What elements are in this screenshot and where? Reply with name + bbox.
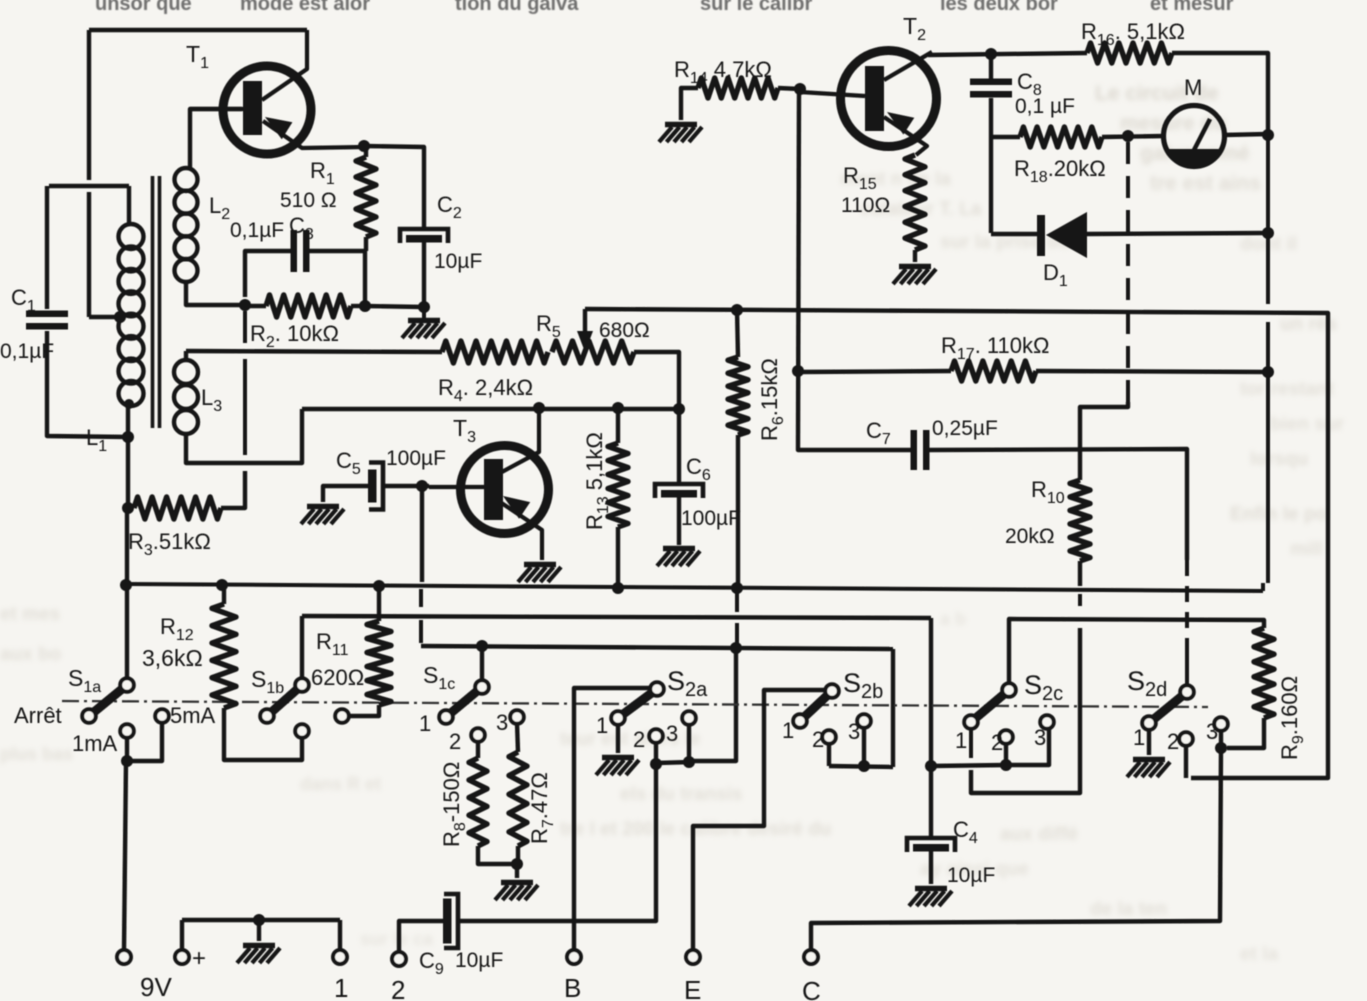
wire: R6 top tail: [737, 310, 738, 357]
svg-text:et la: et la: [1240, 944, 1278, 965]
switch S2a: [622, 692, 653, 715]
wire: bus3 right end down to S2b contacts: [891, 649, 895, 767]
svg-text:3: 3: [1206, 719, 1218, 744]
resistor R5 (rheostat body): [552, 341, 634, 363]
ground (C6): [663, 546, 695, 552]
svg-text:2: 2: [991, 730, 1003, 755]
wire: c2 down to C9: [459, 764, 656, 921]
svg-text:10µF: 10µF: [455, 949, 503, 972]
svg-text:unsor que: unsor que: [95, 0, 192, 15]
wire: C4/S2c tie: [931, 728, 1049, 766]
svg-text:9V: 9V: [140, 972, 172, 1001]
capacitor C6: [655, 484, 703, 498]
svg-text:0,1 µF: 0,1 µF: [1015, 95, 1075, 118]
wire: x89 feed down to L1 tap (lower): [87, 192, 91, 317]
wire: R11 bottom hook: [349, 705, 379, 716]
wire: R17 left tail: [798, 371, 951, 372]
wire: L3 top entry: [184, 351, 188, 362]
svg-text:0,1µF: 0,1µF: [230, 219, 284, 242]
wire: C1 bottom stem: [47, 331, 129, 437]
resistor R12: [212, 604, 236, 708]
wire: R18 node dashed feed to R10: [1126, 142, 1130, 402]
capacitor C8: [970, 79, 1012, 86]
svg-text:lorsqu: lorsqu: [1250, 449, 1308, 470]
resistor R14: [698, 78, 778, 98]
wire: C5 right to base: [384, 484, 429, 488]
svg-text:B: B: [564, 973, 581, 1001]
svg-text:E: E: [684, 975, 701, 1001]
coupling line (dash-dot): [62, 701, 1208, 707]
switch S1b: [271, 688, 299, 712]
contact S2b c3: [857, 714, 871, 728]
node: R3 left junction: [122, 502, 134, 514]
svg-text:+: +: [192, 945, 206, 972]
wire: B to S2a pivot: [574, 688, 650, 950]
capacitor C5: [368, 470, 377, 503]
wire: C6 top stem: [677, 409, 681, 484]
transistor T3: [461, 446, 549, 534]
node: bus1 R13: [612, 582, 624, 594]
inductor L3: [174, 360, 198, 384]
contact S2a c2: [649, 729, 663, 743]
wire: S2a c1 ground stem: [616, 724, 620, 753]
node: bus3 S1c: [476, 640, 488, 652]
contact S2b c2: [822, 730, 836, 744]
terminal B: [567, 950, 581, 964]
wire: R13 bottom tail: [616, 527, 620, 585]
svg-text:a b: a b: [940, 609, 966, 629]
node: C1/L1 junction: [122, 431, 134, 443]
wire: R8 bottom tail: [478, 846, 512, 864]
terminal 1: [333, 950, 347, 964]
wire: R5 right tail: [634, 352, 679, 408]
svg-text:plus bas: plus bas: [0, 744, 73, 764]
wire: D1 left tail: [991, 232, 1037, 236]
transistor T1: [223, 66, 311, 154]
resistor R4: [442, 341, 548, 363]
contact R11 end: [335, 709, 349, 723]
node: R2 right junction: [359, 300, 371, 312]
resistor R8: [469, 758, 487, 846]
svg-text:2: 2: [1167, 729, 1179, 754]
wire: T2 collector rail: [928, 53, 1087, 55]
wire: C8 top stem: [989, 54, 993, 79]
capacitor C3: [291, 230, 298, 272]
wire: R10 bottom tail: [1078, 561, 1082, 586]
wire: L3 top to R4: [186, 351, 442, 352]
node: S2b c3 junction: [858, 760, 870, 772]
wire: R18 left tail: [991, 135, 1020, 139]
wire: L2 top: [190, 109, 242, 170]
wire: R15 bottom tail: [913, 250, 917, 262]
wire: R2 left tail: [245, 304, 266, 308]
svg-text:2: 2: [449, 729, 461, 754]
wire: R12 bottom tail: [224, 708, 302, 760]
contact S1b lower: [295, 724, 309, 738]
wire: C8 bottom stem: [989, 98, 993, 137]
node: battery junction: [121, 755, 133, 767]
wire: R18 right tail: [1102, 136, 1164, 137]
svg-text:1: 1: [334, 973, 348, 1001]
node: bus1 R12: [216, 579, 228, 591]
switch S1a: [93, 688, 123, 713]
wire: C3 left: [245, 251, 294, 297]
wire: S2d c3 stem: [1219, 730, 1223, 748]
svg-text:tre I et 200 le calibre désiré: tre I et 200 le calibre désiré du: [560, 819, 831, 840]
wire: x736 down to S2a c3 wire: [692, 648, 736, 761]
svg-text:tor restant: tor restant: [1240, 379, 1335, 400]
wire: battery feed down: [124, 761, 126, 950]
svg-text:20kΩ: 20kΩ: [1005, 525, 1055, 548]
wire: R6 bottom tail: [736, 435, 740, 586]
wire: R12 top tail: [222, 585, 226, 604]
contact S2c c3: [1040, 715, 1054, 729]
wire: C7 right: [929, 449, 1187, 560]
svg-text:510 Ω: 510 Ω: [280, 189, 337, 212]
wire: R7 top tail: [517, 723, 518, 752]
svg-text:2: 2: [391, 975, 405, 1001]
wire: C4 bottom stem: [929, 851, 933, 884]
wire: dashed x1187 (C7 to S2d): [1185, 560, 1189, 645]
wire: C1 top stem: [45, 186, 49, 309]
transistor T2: [841, 51, 937, 147]
wire: R10-S2c link: [971, 628, 1080, 793]
wire: emitter to C2: [364, 146, 424, 228]
svg-text:C: C: [802, 976, 821, 1001]
ground (C5): [307, 504, 339, 510]
wire: C8 bottom to D1: [989, 137, 993, 233]
wire: bus2 right end down to C4: [929, 618, 933, 765]
wire: S2b c2-c3 tie: [829, 766, 893, 767]
wire: R16 right to meter rail corner: [1172, 53, 1268, 131]
ground (S2a c1): [602, 755, 634, 761]
wire: S2d c3 down to C terminal: [811, 748, 1221, 950]
ground (S2d c1): [1133, 757, 1165, 763]
contact S1c 3: [510, 710, 524, 724]
resistor R15: [905, 155, 925, 250]
wire: y619 rail (S2c pivot / R9): [1009, 619, 1264, 686]
svg-text:les deux bor: les deux bor: [940, 0, 1058, 15]
svg-text:3: 3: [1034, 725, 1046, 750]
wire: L1 top entry: [127, 186, 131, 226]
resistor R9: [1254, 628, 1274, 718]
capacitor C7: [911, 430, 918, 470]
node: R7/R8 join: [511, 858, 523, 870]
wire: R7 bottom tail: [516, 846, 520, 864]
node: emitter/R1: [358, 140, 370, 152]
contact S1c 2: [471, 728, 485, 742]
node: R2 left junction: [239, 299, 251, 311]
wire: R2 right tail: [351, 304, 364, 308]
svg-text:0,25µF: 0,25µF: [932, 417, 998, 440]
node: R6 top: [731, 304, 743, 316]
svg-text:10µF: 10µF: [947, 864, 995, 887]
wire: battery link: [182, 918, 340, 922]
wire: R3 right tail up to R2 node: [221, 471, 245, 508]
wire: collector node rail y408: [302, 407, 679, 411]
ground (C4): [915, 886, 947, 892]
svg-text:3,6kΩ: 3,6kΩ: [142, 645, 203, 671]
node: C6/R5 junction: [673, 403, 685, 415]
node: T3 collector junction: [533, 402, 545, 414]
wire: R14 left tail: [681, 88, 698, 120]
wire: L1 tap horizontal: [89, 315, 117, 319]
svg-text:620Ω: 620Ω: [311, 665, 364, 690]
wire: terminal 1 up: [338, 920, 342, 950]
terminal E: [686, 950, 700, 964]
wire: bus2: [302, 616, 931, 618]
wire: S2d c1 ground stem: [1147, 729, 1151, 755]
wire: meter right: [1224, 134, 1268, 135]
wire: meter rail vertical (upper): [1266, 131, 1270, 304]
wire: C4 top stem: [929, 765, 933, 838]
node: C2/ground: [418, 301, 430, 313]
svg-text:mill: mill: [1290, 539, 1323, 560]
node: C4 top junction: [925, 760, 937, 772]
capacitor C2: [400, 229, 448, 243]
capacitor C9: [443, 899, 452, 944]
ground (T3 emitter): [524, 562, 556, 568]
contact S1a 5mA: [155, 709, 169, 723]
svg-text:tion du galva: tion du galva: [455, 0, 579, 15]
wire: R14 right tail: [778, 88, 800, 89]
node: D1 right junction: [1262, 227, 1274, 239]
resistor R16: [1087, 43, 1172, 63]
svg-text:mode est alor: mode est alor: [240, 0, 370, 15]
contact S2c c2: [999, 730, 1013, 744]
node: R17 right junction: [1262, 366, 1274, 378]
wire: C5 left to ground: [323, 486, 368, 502]
ground (R15): [899, 264, 931, 270]
node: S2a c3 junction: [683, 756, 695, 768]
svg-text:2: 2: [812, 727, 824, 752]
terminal 9V: [117, 950, 131, 964]
wire: R1 top tail: [364, 146, 368, 157]
svg-text:tre est ains: tre est ains: [1150, 172, 1261, 195]
capacitor C4: [907, 838, 955, 852]
svg-text:teur est alors le: teur est alors le: [560, 729, 700, 750]
svg-text:de la ten: de la ten: [1090, 899, 1167, 920]
wire: E to S2b pivot: [693, 690, 825, 950]
ground (R14): [665, 122, 697, 128]
wire: S2b c2 stem: [827, 743, 831, 766]
node: S2c c2 junction: [1000, 759, 1012, 771]
node: bus3 x736: [730, 642, 742, 654]
wire: base node down to bus1: [420, 486, 424, 582]
svg-text:Arrêt: Arrêt: [14, 703, 62, 728]
wire: L1 bus down to S1a: [125, 512, 129, 584]
svg-text:10µF: 10µF: [434, 250, 482, 273]
svg-text:5mA: 5mA: [170, 703, 216, 728]
wire: right edge vertical x1328: [1191, 357, 1328, 778]
wire: C2 bottom stem: [422, 242, 426, 308]
node: bus1 R6: [731, 582, 743, 594]
svg-text:1: 1: [596, 713, 608, 738]
wire: C6 bottom stem: [677, 497, 681, 545]
svg-text:3: 3: [848, 719, 860, 744]
wire: R13 top tail: [616, 408, 620, 443]
svg-text:els du transis: els du transis: [620, 784, 743, 805]
diode D1: [1037, 215, 1045, 256]
resistor R17: [951, 361, 1036, 381]
resistor R7: [509, 752, 527, 846]
svg-text:1: 1: [955, 728, 967, 753]
wire: meter rail vertical (lower): [1266, 322, 1270, 583]
wire: meter left: [1163, 134, 1165, 136]
node: battery mid: [253, 914, 265, 926]
svg-text:et mes: et mes: [0, 604, 60, 625]
svg-text:1: 1: [1133, 725, 1145, 750]
inductor L1: [119, 224, 144, 249]
switch S1c: [450, 690, 478, 714]
svg-text:Enfin le po: Enfin le po: [1230, 504, 1327, 525]
wire: S1a pivot stem: [125, 585, 129, 679]
node: T2 base junction: [794, 83, 806, 95]
terminal +: [175, 950, 189, 964]
wire: R9 bottom tail: [1227, 718, 1264, 748]
node: R18/meter/R10 junction: [1122, 130, 1134, 142]
wire: S2a c2-c3 tie: [656, 762, 692, 763]
svg-text:1: 1: [782, 718, 794, 743]
svg-text:dans R et: dans R et: [300, 774, 381, 794]
wire: x89 feed down to L1 tap (upper): [87, 30, 91, 180]
wire: S2b c3 stem: [862, 727, 866, 766]
svg-text:aux bo: aux bo: [0, 644, 61, 665]
contact S2d c2: [1179, 732, 1193, 746]
ground (R7/R8): [501, 880, 533, 886]
rheostat R5 wiper arrow: [583, 309, 587, 334]
svg-text:680Ω: 680Ω: [599, 319, 650, 342]
svg-text:1: 1: [419, 711, 431, 736]
wire: wiper bus y309: [585, 309, 1328, 357]
resistor R6: [728, 357, 748, 435]
resistor R3: [134, 497, 221, 519]
resistor R18: [1020, 127, 1102, 147]
svg-text:aux diffé: aux diffé: [1000, 824, 1078, 845]
wire: terminal 2 to C9: [399, 921, 443, 952]
wire: battery mid ground stem: [257, 920, 261, 941]
ground (C2/R2 node): [422, 307, 426, 318]
wire: C1 top link: [49, 184, 129, 188]
capacitor C1: [26, 311, 68, 318]
inductor L2: [175, 168, 198, 191]
node: L1 tap: [114, 311, 126, 323]
terminal 2: [392, 952, 406, 966]
wire: S2c c2 stem: [1004, 743, 1008, 765]
node: meter right junction: [1262, 129, 1274, 141]
resistor R10: [1070, 480, 1090, 561]
switch S2c: [975, 693, 1005, 719]
wire: L2 bottom to R2 node: [186, 280, 243, 305]
resistor R2: [266, 295, 351, 317]
ground (battery): [243, 943, 275, 949]
svg-text:110Ω: 110Ω: [841, 194, 890, 217]
svg-text:sur le calibr: sur le calibr: [700, 0, 812, 15]
svg-text:M: M: [1184, 75, 1202, 100]
terminal C: [804, 950, 818, 964]
node: C8 top: [985, 48, 997, 60]
wire: R1 bottom tail: [364, 237, 368, 251]
resistor R11: [367, 621, 391, 705]
node: R13 top junction: [612, 402, 624, 414]
wire: T1 collector top rail: [89, 28, 307, 32]
svg-text:100µF: 100µF: [386, 447, 446, 470]
contact S1a 1mA: [120, 724, 134, 738]
node: bus1 S1a: [120, 579, 132, 591]
wire: R17 right tail: [1036, 371, 1268, 372]
wire: S2d c2 stem: [1184, 745, 1188, 778]
svg-text:100µF: 100µF: [681, 507, 741, 530]
wire: bus2 left end down to S1b: [300, 616, 304, 679]
wire: C3 right / R1 bottom to R2 right: [306, 251, 365, 306]
contact S2d c3: [1214, 717, 1228, 731]
node: S2a c2 junction: [650, 758, 662, 770]
wire: dashed x737 (bus1-bus3): [735, 592, 739, 643]
wire: R7 ground stem: [515, 864, 519, 878]
wire: bus1 right end up: [1261, 583, 1265, 591]
wire: base junction down to R17/C7: [798, 89, 799, 446]
wire: S2a c3 stem: [687, 724, 691, 762]
svg-text:3: 3: [496, 710, 508, 735]
node: L1 bottom blob: [124, 399, 134, 409]
transformer core: [151, 176, 155, 428]
svg-text:3: 3: [666, 721, 678, 746]
svg-text:1mA: 1mA: [72, 731, 118, 756]
node: S2d c3 junction: [1215, 742, 1227, 754]
wire: R11 top tail: [377, 586, 381, 621]
resistor R1: [356, 157, 376, 237]
node: R17 left junction: [792, 365, 804, 377]
wire: bus1 (common rail): [126, 584, 1263, 591]
wire: R8 top tail: [476, 741, 480, 758]
svg-text:et mesur: et mesur: [1150, 0, 1234, 15]
wire: S2a c2 stem: [654, 742, 658, 764]
wire: C7 left: [798, 446, 911, 450]
wire: S1c pivot stem: [480, 646, 484, 680]
wire: R10 to S2c c1 dashed across bus1: [1078, 594, 1082, 612]
contact S2a c3: [682, 711, 696, 725]
switch S2d: [1153, 695, 1183, 720]
wire: L1 bottom to bus: [126, 404, 130, 512]
wire: R2 node to ground node: [365, 306, 424, 307]
node: T3 base / S1c feed: [416, 480, 428, 492]
wire: battery + up: [180, 920, 184, 950]
svg-text:2: 2: [633, 727, 645, 752]
node: bus1 R11: [373, 580, 385, 592]
svg-text:bien sur: bien sur: [1270, 414, 1345, 435]
wire: bus3: [421, 646, 893, 649]
switch S2b: [804, 694, 829, 717]
meter M: [1164, 106, 1225, 167]
wire: 1mA/5mA tie: [127, 722, 162, 761]
resistor R13: [608, 443, 628, 527]
wire: dashed x421 (bus1-bus3): [419, 589, 423, 612]
wire: L3 bottom: [186, 409, 302, 463]
